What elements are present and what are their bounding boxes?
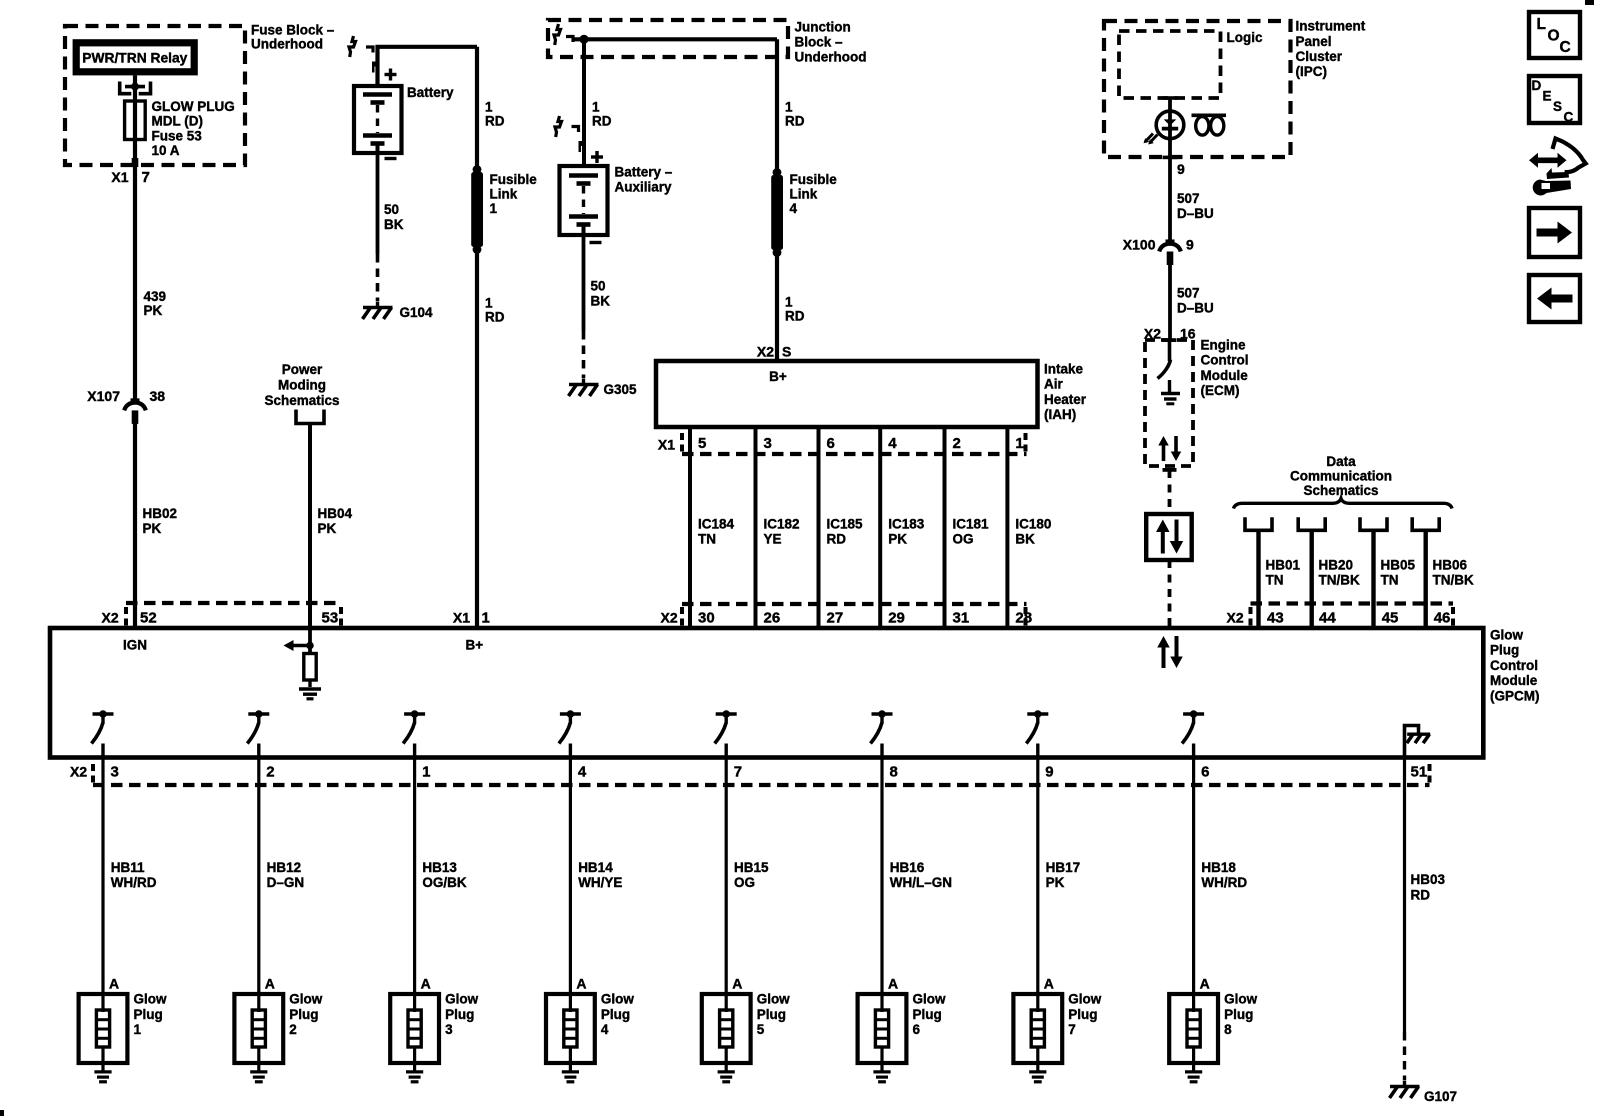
- svg-text:HB20: HB20: [1319, 558, 1354, 573]
- wire HB05 TN to GPCM pin 45: [1360, 517, 1387, 530]
- svg-text:507: 507: [1177, 286, 1200, 301]
- svg-text:WH/L–GN: WH/L–GN: [890, 875, 952, 890]
- fusible link 4: [773, 168, 782, 177]
- svg-text:1: 1: [482, 610, 490, 627]
- svg-text:Cluster: Cluster: [1296, 49, 1343, 64]
- wire fuse to X107 (439 PK): [133, 140, 137, 402]
- svg-text:Glow: Glow: [913, 992, 946, 1007]
- svg-text:WH/RD: WH/RD: [111, 875, 157, 890]
- svg-text:Battery: Battery: [407, 85, 454, 100]
- svg-text:1: 1: [134, 1022, 142, 1037]
- svg-text:Fusible: Fusible: [790, 172, 838, 187]
- svg-text:X1: X1: [111, 169, 128, 185]
- svg-text:Glow: Glow: [1490, 628, 1523, 643]
- brace: [1234, 499, 1453, 509]
- svg-text:HB12: HB12: [267, 860, 302, 875]
- svg-text:7: 7: [142, 169, 150, 186]
- wire 507 D-BU to ECM: [1168, 265, 1172, 341]
- lamp arrows: [1145, 134, 1158, 144]
- svg-text:S: S: [1553, 99, 1562, 114]
- svg-text:Plug: Plug: [1224, 1007, 1253, 1022]
- svg-text:Control: Control: [1490, 658, 1538, 673]
- ECM switch: [1168, 342, 1172, 361]
- ground (glow plug 2): [257, 1063, 260, 1071]
- svg-text:46: 46: [1434, 610, 1451, 627]
- wire HB01 TN to GPCM pin 43: [1245, 517, 1272, 530]
- svg-text:HB04: HB04: [318, 506, 353, 521]
- svg-text:HB03: HB03: [1411, 872, 1446, 887]
- svg-text:Block –: Block –: [795, 35, 844, 50]
- svg-text:45: 45: [1382, 610, 1399, 627]
- svg-text:Control: Control: [1201, 353, 1249, 368]
- svg-text:E: E: [1543, 89, 1552, 104]
- wire 1 RD to fusible link 4: [775, 39, 779, 361]
- svg-text:1: 1: [485, 295, 493, 310]
- svg-text:A: A: [1200, 976, 1210, 992]
- svg-text:A: A: [1044, 976, 1054, 992]
- power moding bracket: [296, 410, 324, 424]
- svg-text:PK: PK: [143, 521, 162, 536]
- svg-text:Intake: Intake: [1044, 362, 1084, 377]
- svg-text:Fuse 53: Fuse 53: [152, 128, 203, 143]
- svg-text:Glow: Glow: [1068, 992, 1101, 1007]
- svg-text:GLOW PLUG: GLOW PLUG: [152, 99, 235, 114]
- svg-text:52: 52: [140, 610, 157, 627]
- page artifacts: [1585, 0, 1594, 5]
- svg-text:B+: B+: [769, 369, 787, 384]
- svg-text:31: 31: [953, 610, 970, 627]
- connector X100 pin 9: [1166, 239, 1175, 243]
- svg-text:HB16: HB16: [890, 860, 925, 875]
- svg-text:43: 43: [1267, 610, 1284, 627]
- svg-text:D–BU: D–BU: [1177, 301, 1214, 316]
- svg-text:D–GN: D–GN: [267, 875, 305, 890]
- battery: [354, 86, 402, 153]
- svg-text:TN: TN: [698, 532, 716, 547]
- svg-text:Auxiliary: Auxiliary: [615, 180, 673, 195]
- svg-text:Heater: Heater: [1044, 392, 1087, 407]
- svg-text:HB01: HB01: [1266, 558, 1301, 573]
- svg-text:OG: OG: [734, 875, 755, 890]
- wire HB06 TN/BK to GPCM pin 46: [1412, 517, 1439, 530]
- svg-text:1: 1: [1015, 435, 1023, 452]
- svg-text:HB18: HB18: [1201, 860, 1236, 875]
- svg-text:Plug: Plug: [1068, 1007, 1097, 1022]
- svg-text:Panel: Panel: [1296, 34, 1332, 49]
- svg-text:A: A: [421, 976, 431, 992]
- svg-text:1: 1: [490, 201, 498, 216]
- svg-text:L: L: [1537, 16, 1546, 33]
- svg-text:X2: X2: [757, 344, 774, 360]
- svg-text:X2: X2: [70, 764, 87, 780]
- junction node: [579, 35, 588, 44]
- svg-text:A: A: [576, 976, 586, 992]
- svg-text:IC183: IC183: [888, 516, 925, 531]
- svg-text:30: 30: [698, 610, 715, 627]
- wire logic to indicator: [1168, 98, 1172, 241]
- svg-text:IC180: IC180: [1015, 516, 1051, 531]
- svg-text:2: 2: [289, 1022, 297, 1037]
- svg-text:TN/BK: TN/BK: [1319, 573, 1360, 588]
- svg-text:OG: OG: [953, 532, 974, 547]
- svg-text:BK: BK: [1015, 532, 1035, 547]
- svg-text:TN: TN: [1381, 573, 1399, 588]
- dashed serial data wire (ECM to link box): [1168, 470, 1172, 514]
- serial data arrows inside GPCM: [1162, 648, 1166, 669]
- wire battery positive to fusible link 1: [378, 47, 478, 86]
- svg-text:G107: G107: [1424, 1089, 1457, 1104]
- svg-text:Underhood: Underhood: [795, 50, 867, 65]
- intake air heater (IAH) box: [656, 361, 1038, 427]
- GPCM connector X2 (data side) boundary: [1251, 601, 1454, 605]
- svg-text:A: A: [888, 976, 898, 992]
- wire 1 RD to battery auxiliary: [582, 39, 586, 166]
- svg-text:5: 5: [757, 1022, 765, 1037]
- wire relay to fuse: [133, 75, 137, 101]
- svg-text:Communication: Communication: [1290, 468, 1392, 483]
- svg-text:10 A: 10 A: [152, 143, 180, 158]
- battery auxiliary minus: [590, 241, 602, 244]
- svg-text:A: A: [109, 976, 119, 992]
- wire 50 BK to G104: [376, 153, 380, 254]
- svg-text:9: 9: [1045, 764, 1053, 781]
- svg-text:IC185: IC185: [827, 516, 864, 531]
- svg-text:X100: X100: [1123, 237, 1156, 253]
- svg-text:1: 1: [422, 764, 430, 781]
- svg-text:D: D: [1532, 78, 1542, 93]
- svg-text:Link: Link: [790, 186, 818, 201]
- GPCM pin 51 internal ground: [1405, 726, 1419, 758]
- svg-text:Power: Power: [282, 362, 323, 377]
- svg-text:29: 29: [888, 610, 905, 627]
- svg-text:Battery –: Battery –: [615, 165, 673, 180]
- svg-text:B+: B+: [466, 638, 484, 653]
- junction block underhood dashed box: [548, 20, 788, 57]
- instrument panel cluster dashed box: [1104, 21, 1291, 157]
- svg-text:1: 1: [592, 100, 600, 115]
- svg-text:PK: PK: [888, 532, 907, 547]
- ground (glow plug 7): [1036, 1063, 1039, 1071]
- svg-text:26: 26: [764, 610, 781, 627]
- svg-text:WH/RD: WH/RD: [1201, 875, 1247, 890]
- svg-text:7: 7: [1068, 1022, 1076, 1037]
- svg-text:WH/YE: WH/YE: [578, 875, 622, 890]
- battery auxiliary: [560, 166, 608, 235]
- svg-text:(IAH): (IAH): [1044, 407, 1076, 422]
- svg-text:7: 7: [734, 764, 742, 781]
- battery plus: [385, 73, 397, 76]
- wire IC182 YE (IAH pin 3 to GPCM pin 26): [754, 427, 758, 628]
- battery minus: [385, 157, 397, 160]
- svg-text:8: 8: [890, 764, 898, 781]
- svg-text:Air: Air: [1044, 377, 1064, 392]
- svg-text:1: 1: [485, 100, 493, 115]
- svg-text:507: 507: [1177, 191, 1200, 206]
- svg-text:C: C: [1564, 110, 1574, 125]
- serial data link box: [1146, 514, 1192, 560]
- svg-text:Plug: Plug: [913, 1007, 942, 1022]
- svg-text:44: 44: [1319, 610, 1336, 627]
- svg-text:8: 8: [1224, 1022, 1232, 1037]
- svg-text:Plug: Plug: [757, 1007, 786, 1022]
- switch driver 5 (pin 7): [716, 712, 737, 715]
- svg-text:HB17: HB17: [1046, 860, 1081, 875]
- svg-text:C: C: [1560, 39, 1571, 56]
- svg-text:Glow: Glow: [289, 992, 322, 1007]
- IPC boundary tick: [1163, 156, 1178, 160]
- svg-text:Plug: Plug: [601, 1007, 630, 1022]
- svg-text:HB15: HB15: [734, 860, 769, 875]
- ground (glow plug 6): [880, 1063, 883, 1071]
- svg-text:4: 4: [790, 201, 798, 216]
- svg-text:Glow: Glow: [757, 992, 790, 1007]
- svg-text:RD: RD: [1411, 888, 1431, 903]
- svg-text:RD: RD: [592, 114, 612, 129]
- wire HB20 TN/BK to GPCM pin 44: [1298, 517, 1325, 530]
- switch driver 2 (pin 2): [248, 712, 269, 715]
- ground G107: [1403, 1081, 1406, 1086]
- icon box back arrow: [1529, 275, 1580, 322]
- wire 50 BK to G305: [582, 235, 586, 331]
- svg-text:6: 6: [827, 435, 835, 452]
- svg-text:Engine: Engine: [1201, 338, 1246, 353]
- GPCM connector X2 52/53 boundary: [126, 601, 341, 605]
- svg-text:X107: X107: [87, 388, 120, 404]
- ground G104: [376, 302, 379, 307]
- svg-text:38: 38: [150, 388, 166, 404]
- svg-text:1: 1: [785, 295, 793, 310]
- ground (glow plug 3): [413, 1063, 416, 1071]
- svg-text:Moding: Moding: [278, 378, 326, 393]
- svg-text:Plug: Plug: [289, 1007, 318, 1022]
- svg-text:HB14: HB14: [578, 860, 613, 875]
- svg-text:TN/BK: TN/BK: [1433, 573, 1474, 588]
- svg-text:3: 3: [445, 1022, 453, 1037]
- wire IC180 BK (IAH pin 1 to GPCM pin 28): [1005, 427, 1009, 628]
- wire 1 RD feed (fusible link 1 branch): [475, 47, 479, 628]
- svg-text:Data: Data: [1326, 454, 1356, 469]
- svg-text:RD: RD: [827, 532, 847, 547]
- svg-text:HB02: HB02: [143, 506, 178, 521]
- svg-text:9: 9: [1177, 161, 1185, 177]
- svg-text:X2: X2: [1227, 610, 1244, 626]
- svg-text:(ECM): (ECM): [1201, 383, 1240, 398]
- svg-text:PK: PK: [144, 303, 163, 318]
- relay contact: [120, 82, 151, 94]
- svg-text:Plug: Plug: [134, 1007, 163, 1022]
- svg-text:IC182: IC182: [764, 516, 800, 531]
- svg-text:27: 27: [827, 610, 844, 627]
- svg-text:(GPCM): (GPCM): [1490, 688, 1540, 703]
- svg-text:Plug: Plug: [445, 1007, 474, 1022]
- svg-text:X1: X1: [453, 610, 470, 626]
- svg-text:RD: RD: [785, 114, 805, 129]
- svg-text:Instrument: Instrument: [1296, 19, 1366, 34]
- svg-text:6: 6: [1201, 764, 1209, 781]
- svg-text:Glow: Glow: [601, 992, 634, 1007]
- svg-text:TN: TN: [1266, 573, 1284, 588]
- icon wrench and arrows: [1536, 158, 1561, 164]
- GPCM bottom connector X2 boundary: [93, 783, 1430, 787]
- dashed serial data wire (link box to GPCM): [1168, 560, 1172, 628]
- svg-text:50: 50: [591, 279, 606, 294]
- icon box LOC: [1529, 12, 1580, 58]
- svg-text:50: 50: [384, 202, 399, 217]
- wire IC184 TN (IAH pin 5 to GPCM pin 30): [688, 427, 692, 628]
- fuse GLOW PLUG MDL (D) Fuse 53 10 A: [133, 101, 137, 140]
- svg-text:RD: RD: [785, 309, 805, 324]
- svg-text:X2: X2: [102, 610, 119, 626]
- svg-text:D–BU: D–BU: [1177, 206, 1214, 221]
- ECM internal ground: [1168, 380, 1171, 393]
- fuse block underhood dashed box: [65, 26, 245, 165]
- svg-text:Glow: Glow: [134, 992, 167, 1007]
- svg-text:OG/BK: OG/BK: [422, 875, 467, 890]
- page link hook (battery aux): [555, 116, 562, 137]
- svg-text:Module: Module: [1490, 673, 1538, 688]
- icon box next arrow: [1529, 208, 1580, 257]
- wire power moding schematics to pin 53: [308, 425, 312, 628]
- svg-text:3: 3: [111, 764, 119, 781]
- ground (glow plug 8): [1192, 1063, 1195, 1071]
- svg-text:51: 51: [1411, 764, 1428, 781]
- svg-text:IC184: IC184: [698, 516, 735, 531]
- svg-text:53: 53: [322, 610, 339, 627]
- svg-text:HB11: HB11: [111, 860, 145, 875]
- svg-text:4: 4: [601, 1022, 609, 1037]
- svg-text:Link: Link: [490, 186, 518, 201]
- svg-text:Fusible: Fusible: [490, 172, 538, 187]
- svg-text:MDL (D): MDL (D): [152, 114, 204, 129]
- GPCM connector X2 (IAH side) boundary: [682, 602, 1027, 606]
- svg-text:A: A: [265, 976, 275, 992]
- svg-text:9: 9: [1186, 237, 1194, 253]
- svg-text:6: 6: [913, 1022, 921, 1037]
- svg-text:1: 1: [785, 100, 793, 115]
- svg-text:Glow: Glow: [445, 992, 478, 1007]
- svg-text:Module: Module: [1201, 368, 1249, 383]
- logic dashed box: [1119, 31, 1221, 98]
- svg-text:X1: X1: [658, 437, 675, 453]
- switch driver 1 (pin 3): [93, 712, 114, 715]
- battery auxiliary plus: [591, 155, 603, 158]
- ground G305: [582, 379, 585, 384]
- ground (glow plug 5): [725, 1063, 728, 1071]
- page link hook (junction block feed): [554, 24, 561, 45]
- svg-text:Glow: Glow: [1224, 992, 1257, 1007]
- engine control module dashed box: [1145, 340, 1193, 466]
- svg-text:RD: RD: [485, 114, 505, 129]
- svg-text:439: 439: [144, 289, 167, 304]
- svg-text:2: 2: [953, 435, 961, 452]
- ECM entry tick: [1163, 338, 1177, 342]
- wait to start indicator lamp: [1156, 111, 1184, 139]
- svg-text:RD: RD: [485, 310, 505, 325]
- svg-text:HB06: HB06: [1433, 558, 1468, 573]
- svg-text:4: 4: [578, 764, 587, 781]
- svg-text:HB13: HB13: [422, 860, 457, 875]
- page link hook (battery feed): [349, 36, 356, 57]
- svg-text:S: S: [782, 344, 791, 360]
- switch driver 8 (pin 6): [1183, 712, 1204, 715]
- svg-text:(IPC): (IPC): [1296, 64, 1328, 79]
- ECM serial data arrows: [1162, 446, 1166, 462]
- svg-text:5: 5: [698, 435, 706, 452]
- svg-text:3: 3: [764, 435, 772, 452]
- ground (glow plug 4): [569, 1063, 572, 1071]
- svg-text:A: A: [732, 976, 742, 992]
- glow plug control module (GPCM) box: [50, 628, 1483, 758]
- wire IC185 RD (IAH pin 6 to GPCM pin 27): [817, 427, 821, 628]
- IAH connector X1 dashed boundary: [682, 452, 1027, 456]
- svg-text:Junction: Junction: [795, 19, 851, 34]
- wire IC183 PK (IAH pin 4 to GPCM pin 29): [878, 427, 882, 628]
- svg-text:HB05: HB05: [1381, 558, 1416, 573]
- svg-text:Logic: Logic: [1227, 30, 1263, 45]
- svg-text:Schematics: Schematics: [264, 393, 339, 408]
- svg-text:BK: BK: [591, 294, 611, 309]
- relay PWR/TRN Relay: [76, 43, 194, 72]
- indicator coil: [1192, 114, 1227, 118]
- switch driver 7 (pin 9): [1027, 712, 1048, 715]
- wire X107 to GPCM pin 52 (HB02 PK): [133, 423, 137, 628]
- ground (glow plug 1): [101, 1063, 104, 1071]
- wire IC181 OG (IAH pin 2 to GPCM pin 31): [943, 427, 947, 628]
- GPCM pullup: arrow, resistor, ground: [308, 628, 312, 654]
- svg-text:YE: YE: [764, 532, 782, 547]
- svg-text:G104: G104: [400, 305, 434, 320]
- svg-text:BK: BK: [384, 217, 404, 232]
- svg-text:G305: G305: [604, 382, 638, 397]
- svg-text:Underhood: Underhood: [251, 36, 323, 51]
- svg-text:PK: PK: [1046, 875, 1065, 890]
- junction block bus wire: [572, 37, 777, 41]
- connector X107 pin 38: [131, 398, 140, 402]
- icon box DESC: [1529, 76, 1580, 123]
- svg-text:4: 4: [888, 435, 897, 452]
- svg-text:O: O: [1548, 28, 1560, 45]
- switch driver 6 (pin 8): [872, 712, 893, 715]
- switch driver 4 (pin 4): [560, 712, 581, 715]
- svg-text:IC181: IC181: [953, 516, 990, 531]
- svg-text:2: 2: [266, 764, 274, 781]
- svg-text:PWR/TRN Relay: PWR/TRN Relay: [82, 51, 187, 66]
- fusible link 1: [473, 165, 482, 174]
- switch driver 3 (pin 1): [404, 712, 425, 715]
- ECM exit tick: [1163, 468, 1177, 472]
- svg-text:PK: PK: [318, 521, 337, 536]
- svg-text:X2: X2: [661, 610, 678, 626]
- svg-text:Plug: Plug: [1490, 643, 1519, 658]
- svg-text:IGN: IGN: [123, 638, 147, 653]
